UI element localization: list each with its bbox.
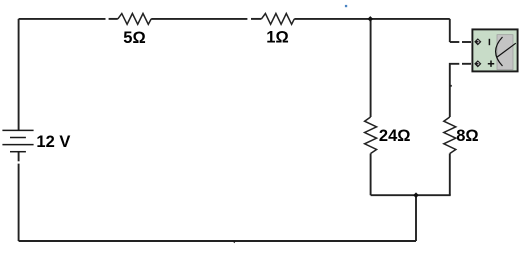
wire top-left horizontal	[19, 18, 106, 20]
resistor R3 24ohm	[365, 117, 377, 154]
wire left vertical top	[18, 19, 20, 130]
wire bottom horizontal	[19, 240, 416, 242]
junction node B (bottom)	[413, 192, 419, 198]
stray mark	[345, 5, 347, 7]
wire ground riser	[415, 195, 417, 241]
wire R2 left lead	[251, 18, 261, 20]
meter U1 minus mark	[488, 39, 490, 45]
wire meter top drop	[449, 19, 451, 42]
resistor R1 5ohm	[118, 14, 151, 25]
svg-text:1Ω: 1Ω	[266, 29, 288, 47]
resistor R4 8ohm	[444, 117, 456, 154]
meter U1 plus mark	[488, 61, 494, 67]
wire R1 left lead	[109, 18, 118, 20]
battery V1 plates	[2, 130, 33, 151]
meter U1 display window	[497, 35, 513, 70]
wire meter plus stub	[462, 63, 471, 65]
wire R3 top lead	[370, 19, 372, 117]
meter U1 minus pin	[474, 38, 481, 45]
meter U1 body	[472, 29, 517, 71]
wire to meter minus pin	[450, 41, 460, 43]
svg-text:24Ω: 24Ω	[379, 127, 411, 145]
junction node A (top)	[368, 16, 374, 22]
wire stub nub on 8ohm lead	[450, 85, 452, 87]
wire left vertical bottom	[18, 164, 20, 241]
resistor R2 1ohm	[261, 14, 294, 25]
meter U1 scale arc	[496, 37, 503, 66]
wire battery bottom stub	[18, 152, 20, 162]
wire between R1 and R2	[151, 18, 247, 20]
wire R4 bottom lead	[449, 154, 451, 196]
wire joint nub on bottom wire	[233, 241, 237, 244]
wire meter minus stub	[462, 41, 471, 43]
meter U1 plus pin	[474, 60, 481, 67]
wire R3 bottom lead	[370, 154, 372, 196]
wire middle bottom horizontal	[371, 194, 451, 196]
wire from meter plus pin	[450, 64, 460, 117]
svg-text:8Ω: 8Ω	[456, 127, 478, 145]
svg-text:12 V: 12 V	[36, 133, 70, 151]
svg-text:5Ω: 5Ω	[123, 29, 145, 47]
meter U1 needle	[497, 43, 516, 57]
wire top-right horizontal	[294, 18, 450, 20]
